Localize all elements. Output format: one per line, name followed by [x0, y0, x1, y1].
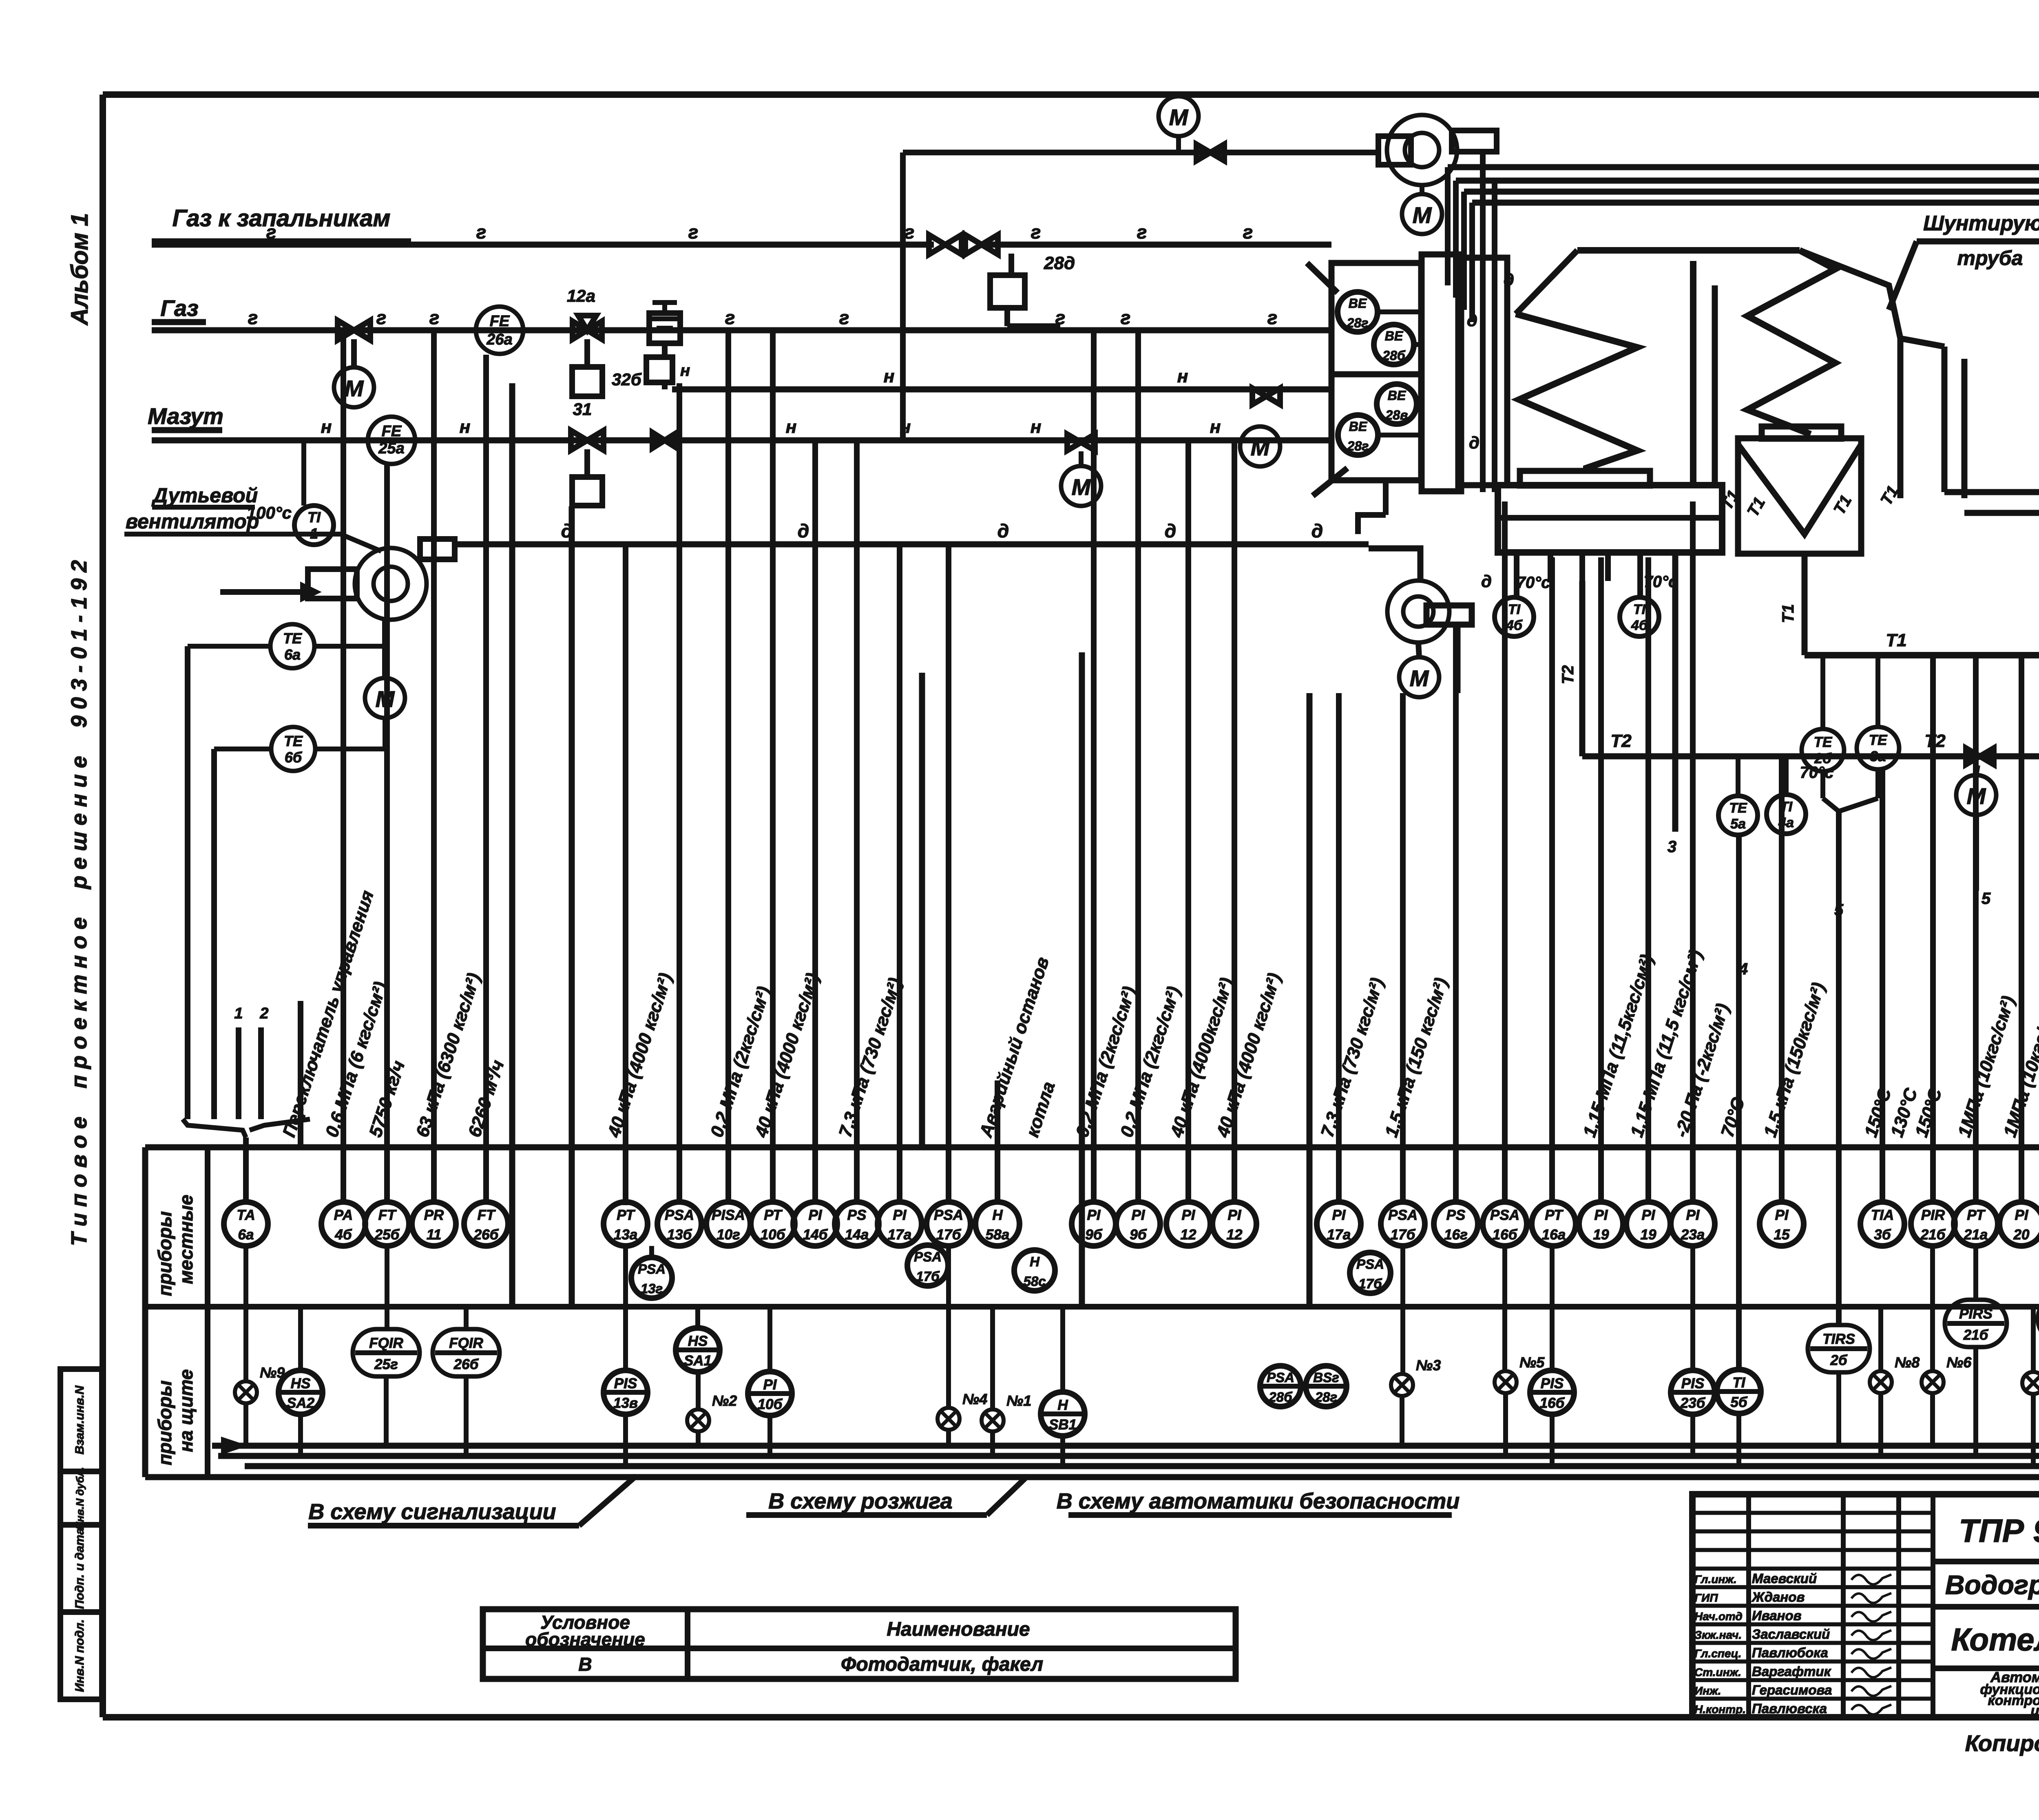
- svg-text:г: г: [725, 307, 735, 328]
- svg-text:ТЕ: ТЕ: [1869, 732, 1888, 748]
- svg-text:21б: 21б: [1963, 1327, 1989, 1343]
- svg-text:РSА: РSА: [1490, 1207, 1519, 1223]
- svg-text:РS: РS: [1446, 1207, 1466, 1223]
- svg-text:РТ: РТ: [617, 1207, 635, 1223]
- svg-text:н: н: [1177, 367, 1188, 387]
- svg-text:Маевский: Маевский: [1752, 1571, 1817, 1586]
- svg-text:г: г: [476, 221, 487, 243]
- svg-text:Павлюбока: Павлюбока: [1752, 1645, 1828, 1660]
- svg-text:13а: 13а: [614, 1227, 637, 1243]
- svg-text:26б: 26б: [453, 1356, 479, 1372]
- svg-text:РI: РI: [1594, 1207, 1608, 1223]
- svg-text:Т и п о в о е п р о е к т н о: Т и п о в о е п р о е к т н о е р е ш е …: [67, 560, 91, 1246]
- svg-text:SА2: SА2: [287, 1395, 315, 1411]
- svg-text:М: М: [1410, 665, 1429, 691]
- svg-text:местные: местные: [175, 1195, 197, 1284]
- svg-text:FE: FE: [490, 313, 510, 330]
- svg-text:Альбом 1: Альбом 1: [66, 213, 93, 326]
- svg-text:РSА: РSА: [1388, 1207, 1418, 1223]
- svg-text:1,5 кПа (150кгс/м²): 1,5 кПа (150кгс/м²): [1760, 980, 1829, 1140]
- svg-text:приборы: приборы: [154, 1380, 175, 1465]
- svg-text:Заславский: Заславский: [1752, 1627, 1830, 1642]
- svg-text:г: г: [688, 221, 699, 243]
- svg-text:н: н: [680, 362, 690, 380]
- svg-text:г: г: [1121, 307, 1131, 328]
- svg-text:9б: 9б: [1085, 1227, 1102, 1243]
- svg-text:28д: 28д: [1044, 253, 1075, 273]
- svg-text:№8: №8: [1895, 1354, 1920, 1371]
- svg-text:12а: 12а: [567, 286, 595, 305]
- svg-text:г: г: [266, 221, 276, 243]
- svg-text:17б: 17б: [1358, 1276, 1382, 1291]
- svg-text:РIRS: РIRS: [1959, 1306, 1993, 1322]
- svg-text:Котел КВ-ГМ-50: Котел КВ-ГМ-50: [1951, 1621, 2039, 1657]
- svg-text:5б: 5б: [1730, 1394, 1747, 1410]
- svg-text:Н: Н: [1057, 1397, 1068, 1413]
- svg-text:Подп. и дата: Подп. и дата: [73, 1528, 86, 1609]
- svg-text:РI: РI: [763, 1377, 777, 1393]
- svg-text:н: н: [321, 417, 332, 437]
- svg-text:г: г: [376, 307, 387, 328]
- svg-text:Газ к запальникам: Газ к запальникам: [172, 205, 391, 232]
- svg-text:40 кПа (4000 кгс/м²): 40 кПа (4000 кгс/м²): [604, 971, 676, 1140]
- svg-text:д: д: [798, 520, 809, 541]
- svg-text:Гл.инж.: Гл.инж.: [1694, 1573, 1737, 1586]
- svg-text:6б: 6б: [285, 749, 303, 766]
- svg-text:58с: 58с: [1023, 1274, 1046, 1289]
- svg-text:вентилятор: вентилятор: [126, 510, 259, 533]
- svg-text:г: г: [1137, 221, 1147, 243]
- svg-text:32б: 32б: [612, 370, 642, 389]
- svg-text:Н: Н: [992, 1207, 1003, 1223]
- svg-text:и управления.: и управления.: [2031, 1703, 2039, 1718]
- svg-text:д: д: [1469, 433, 1479, 452]
- svg-text:д: д: [1481, 572, 1492, 591]
- svg-text:ВЕ: ВЕ: [1349, 296, 1367, 311]
- svg-text:ВЕ: ВЕ: [1385, 329, 1404, 343]
- svg-text:28б: 28б: [1382, 348, 1406, 363]
- svg-text:25б: 25б: [374, 1227, 400, 1243]
- svg-text:ГИП: ГИП: [1694, 1591, 1718, 1604]
- svg-text:3б: 3б: [1874, 1227, 1891, 1243]
- svg-text:РI: РI: [1332, 1207, 1346, 1223]
- svg-text:В схему сигнализации: В схему сигнализации: [308, 1500, 556, 1524]
- svg-text:Т1: Т1: [1744, 494, 1769, 519]
- svg-text:14а: 14а: [845, 1227, 869, 1243]
- svg-text:РSА: РSА: [934, 1207, 963, 1223]
- svg-text:г: г: [839, 307, 849, 328]
- svg-text:Мазут: Мазут: [148, 403, 223, 429]
- svg-text:обозначение: обозначение: [525, 1629, 645, 1650]
- svg-text:16б: 16б: [1493, 1227, 1518, 1243]
- svg-text:д: д: [1165, 520, 1176, 541]
- svg-text:РIS: РIS: [1541, 1376, 1564, 1392]
- svg-text:17а: 17а: [1327, 1227, 1351, 1243]
- svg-text:23б: 23б: [1680, 1395, 1706, 1411]
- svg-text:н: н: [786, 417, 797, 437]
- svg-text:16г: 16г: [1444, 1227, 1468, 1243]
- svg-text:№1: №1: [1006, 1392, 1031, 1409]
- svg-text:ТЕ: ТЕ: [1814, 734, 1833, 750]
- svg-text:26б: 26б: [473, 1227, 499, 1243]
- svg-text:РI: РI: [2015, 1207, 2028, 1223]
- svg-text:РIS: РIS: [1681, 1376, 1704, 1392]
- svg-text:10г: 10г: [717, 1227, 740, 1243]
- svg-text:7,3 кПа (730 кгс/м²): 7,3 кПа (730 кгс/м²): [1317, 975, 1388, 1140]
- svg-text:г: г: [248, 307, 258, 328]
- svg-text:FТ: FТ: [378, 1207, 397, 1223]
- svg-text:ВЕ: ВЕ: [1349, 419, 1368, 434]
- svg-text:13в: 13в: [613, 1395, 638, 1411]
- svg-text:ТI: ТI: [307, 509, 321, 526]
- svg-text:Газ: Газ: [160, 295, 198, 321]
- svg-text:Т1: Т1: [1886, 630, 1906, 650]
- svg-text:г: г: [905, 221, 915, 243]
- svg-text:Взам.инв.N: Взам.инв.N: [73, 1385, 86, 1454]
- svg-text:М: М: [345, 375, 364, 401]
- svg-text:12: 12: [1181, 1227, 1196, 1243]
- svg-text:6а: 6а: [284, 646, 301, 663]
- svg-text:5: 5: [1834, 901, 1844, 919]
- svg-text:31: 31: [573, 400, 592, 419]
- svg-text:Инв.N дубл.: Инв.N дубл.: [74, 1467, 86, 1529]
- svg-text:70°С: 70°С: [1717, 1095, 1749, 1140]
- svg-text:28г: 28г: [1315, 1389, 1337, 1405]
- svg-text:г: г: [429, 307, 440, 328]
- svg-text:ТIА: ТIА: [1871, 1207, 1894, 1223]
- svg-text:ТЕ: ТЕ: [284, 733, 303, 749]
- svg-text:РIS: РIS: [614, 1376, 637, 1392]
- svg-text:н: н: [1031, 417, 1042, 437]
- svg-text:РSА: РSА: [638, 1261, 666, 1277]
- svg-text:26а: 26а: [486, 331, 512, 348]
- svg-text:н: н: [1210, 417, 1221, 437]
- svg-text:В схему розжига: В схему розжига: [768, 1489, 952, 1513]
- svg-text:28г: 28г: [1347, 439, 1369, 453]
- svg-text:ТI: ТI: [1508, 602, 1521, 617]
- svg-text:28г: 28г: [1347, 316, 1369, 330]
- svg-text:РI: РI: [1775, 1207, 1789, 1223]
- svg-text:РI: РI: [1227, 1207, 1241, 1223]
- svg-text:М: М: [1169, 104, 1189, 130]
- svg-text:Жданов: Жданов: [1751, 1589, 1805, 1604]
- svg-text:НS: НS: [688, 1333, 708, 1349]
- svg-text:РТ: РТ: [1967, 1207, 1986, 1223]
- svg-text:н: н: [884, 367, 895, 387]
- svg-text:25а: 25а: [378, 440, 404, 457]
- svg-text:6а: 6а: [238, 1227, 254, 1243]
- svg-text:Инж.: Инж.: [1694, 1684, 1721, 1697]
- svg-text:РIR: РIR: [1921, 1207, 1945, 1223]
- svg-text:Наименование: Наименование: [887, 1619, 1030, 1640]
- svg-text:1,5 кПа (150 кгс/м²): 1,5 кПа (150 кгс/м²): [1381, 975, 1452, 1140]
- svg-text:Н: Н: [1030, 1254, 1040, 1269]
- svg-text:4б: 4б: [334, 1227, 352, 1243]
- svg-text:20: 20: [2013, 1227, 2030, 1243]
- svg-text:Ст.инж.: Ст.инж.: [1694, 1666, 1741, 1679]
- svg-text:ВSг: ВSг: [1313, 1370, 1339, 1385]
- svg-text:ВЕ: ВЕ: [1388, 388, 1407, 403]
- svg-text:21а: 21а: [1964, 1227, 1988, 1243]
- svg-text:Т1: Т1: [1779, 604, 1797, 623]
- svg-text:РТ: РТ: [1545, 1207, 1564, 1223]
- svg-text:Шунтирующая: Шунтирующая: [1923, 212, 2039, 235]
- svg-text:5а: 5а: [1730, 816, 1746, 832]
- svg-text:№6: №6: [1946, 1354, 1972, 1371]
- svg-text:ТI: ТI: [1732, 1375, 1745, 1391]
- svg-text:4б: 4б: [1506, 618, 1523, 633]
- svg-text:ТЕ: ТЕ: [283, 630, 302, 647]
- svg-text:Дутьевой: Дутьевой: [151, 484, 258, 507]
- svg-text:РI: РI: [1131, 1207, 1145, 1223]
- svg-text:23а: 23а: [1681, 1227, 1705, 1243]
- svg-text:6260 м³/ч: 6260 м³/ч: [464, 1058, 508, 1140]
- svg-text:РI: РI: [1181, 1207, 1195, 1223]
- svg-text:ТПР 903-01-192 АГС и АМС: ТПР 903-01-192 АГС и АМС: [1959, 1513, 2039, 1549]
- svg-text:Т2: Т2: [1610, 731, 1632, 751]
- svg-text:28в: 28в: [1385, 408, 1408, 422]
- svg-text:Нач.отд: Нач.отд: [1694, 1610, 1743, 1623]
- svg-text:Т1: Т1: [1830, 492, 1855, 517]
- svg-text:7,3 кПа (730 кгс/м²): 7,3 кПа (730 кгс/м²): [835, 975, 906, 1140]
- svg-text:В: В: [578, 1654, 592, 1675]
- svg-text:1: 1: [234, 1005, 243, 1022]
- svg-text:д: д: [997, 520, 1009, 541]
- svg-text:ТI: ТI: [1633, 602, 1646, 617]
- svg-text:Инв.N подл.: Инв.N подл.: [73, 1619, 86, 1692]
- svg-text:2: 2: [259, 1005, 268, 1022]
- svg-text:РI: РI: [1686, 1207, 1700, 1223]
- svg-text:17б: 17б: [916, 1269, 940, 1284]
- svg-text:РI: РI: [893, 1207, 907, 1223]
- svg-text:РТ: РТ: [764, 1207, 783, 1223]
- svg-text:№4: №4: [962, 1391, 987, 1407]
- svg-text:SВ1: SВ1: [1049, 1417, 1077, 1433]
- svg-text:РISА: РISА: [712, 1207, 745, 1223]
- svg-text:FE: FE: [382, 423, 402, 440]
- svg-text:РSА: РSА: [665, 1207, 694, 1223]
- svg-text:Фотодатчик, факел: Фотодатчик, факел: [841, 1654, 1043, 1675]
- svg-text:13г: 13г: [641, 1281, 663, 1296]
- svg-text:г: г: [1243, 221, 1253, 243]
- svg-text:5: 5: [1982, 890, 1991, 908]
- svg-text:10б: 10б: [758, 1396, 783, 1412]
- svg-text:М: М: [1413, 202, 1432, 228]
- svg-text:приборы: приборы: [154, 1211, 175, 1296]
- svg-text:№3: №3: [1416, 1357, 1441, 1374]
- svg-text:FQIR: FQIR: [369, 1335, 403, 1351]
- svg-text:14б: 14б: [803, 1227, 828, 1243]
- svg-text:FQIR: FQIR: [449, 1335, 483, 1351]
- svg-text:4: 4: [1738, 960, 1748, 978]
- svg-text:13б: 13б: [667, 1227, 692, 1243]
- svg-text:Гл.спец.: Гл.спец.: [1694, 1647, 1741, 1660]
- svg-text:Н.контр.: Н.контр.: [1694, 1703, 1746, 1716]
- svg-text:РSА: РSА: [1267, 1370, 1294, 1385]
- svg-text:НS: НS: [291, 1376, 311, 1392]
- svg-text:М: М: [1251, 435, 1270, 460]
- svg-text:РI: РI: [1087, 1207, 1101, 1223]
- svg-text:ТЕ: ТЕ: [1729, 800, 1747, 816]
- svg-text:9б: 9б: [1130, 1227, 1147, 1243]
- svg-text:№5: №5: [1519, 1354, 1545, 1371]
- svg-text:28б: 28б: [1268, 1389, 1293, 1405]
- svg-text:котла: котла: [1022, 1079, 1059, 1140]
- svg-text:г: г: [1055, 307, 1066, 328]
- svg-text:Копировал: Радион: Копировал: Радион: [1965, 1730, 2039, 1756]
- svg-text:РI: РI: [1641, 1207, 1655, 1223]
- svg-text:труба: труба: [1957, 247, 2023, 269]
- svg-text:15: 15: [1774, 1227, 1790, 1243]
- svg-text:70°с: 70°с: [1800, 764, 1834, 782]
- svg-text:SА1: SА1: [684, 1353, 712, 1369]
- svg-text:19: 19: [1641, 1227, 1656, 1243]
- svg-text:25г: 25г: [374, 1356, 398, 1372]
- svg-text:РА: РА: [334, 1207, 353, 1223]
- svg-text:16б: 16б: [1540, 1395, 1565, 1411]
- svg-text:17а: 17а: [888, 1227, 911, 1243]
- svg-text:№2: №2: [712, 1392, 737, 1409]
- svg-text:3: 3: [1667, 838, 1676, 856]
- svg-text:г: г: [1031, 221, 1041, 243]
- svg-text:Зкж.нач.: Зкж.нач.: [1694, 1629, 1742, 1641]
- svg-text:д: д: [1311, 520, 1323, 541]
- svg-text:21б: 21б: [1920, 1227, 1946, 1243]
- svg-text:на щите: на щите: [175, 1369, 197, 1452]
- svg-text:ТIRS: ТIRS: [1822, 1331, 1855, 1347]
- svg-text:РR: РR: [424, 1207, 444, 1223]
- svg-text:Иванов: Иванов: [1752, 1608, 1802, 1623]
- svg-text:РSА: РSА: [1356, 1257, 1384, 1272]
- svg-text:РSА: РSА: [914, 1249, 942, 1264]
- svg-text:58а: 58а: [986, 1227, 1009, 1243]
- svg-text:М: М: [1072, 474, 1091, 500]
- svg-text:В схему автоматики безопасност: В схему автоматики безопасности: [1057, 1489, 1460, 1513]
- svg-text:ТА: ТА: [237, 1207, 255, 1223]
- svg-text:70°с: 70°с: [1517, 574, 1550, 592]
- svg-text:FТ: FТ: [478, 1207, 496, 1223]
- svg-text:12: 12: [1227, 1227, 1243, 1243]
- svg-text:17б: 17б: [936, 1227, 962, 1243]
- svg-text:2б: 2б: [1830, 1352, 1847, 1368]
- svg-text:19: 19: [1593, 1227, 1609, 1243]
- svg-text:Варгафтик: Варгафтик: [1752, 1664, 1832, 1679]
- svg-text:11: 11: [427, 1227, 441, 1243]
- svg-text:10б: 10б: [761, 1227, 786, 1243]
- svg-text:5750 кг/ч: 5750 кг/ч: [365, 1058, 409, 1140]
- svg-text:16а: 16а: [1542, 1227, 1566, 1243]
- svg-text:17б: 17б: [1391, 1227, 1416, 1243]
- svg-text:Павлювска: Павлювска: [1752, 1701, 1827, 1716]
- svg-text:4б: 4б: [1631, 618, 1648, 633]
- svg-text:Т2: Т2: [1559, 665, 1577, 685]
- svg-text:РI: РI: [808, 1207, 822, 1223]
- svg-text:Герасимова: Герасимова: [1752, 1682, 1832, 1697]
- svg-text:РS: РS: [847, 1207, 867, 1223]
- svg-text:Водогрейные котлы типа КВ-Г: Водогрейные котлы типа КВ-ГМ: [1945, 1570, 2039, 1600]
- svg-text:г: г: [1267, 307, 1278, 328]
- svg-text:н: н: [460, 417, 471, 437]
